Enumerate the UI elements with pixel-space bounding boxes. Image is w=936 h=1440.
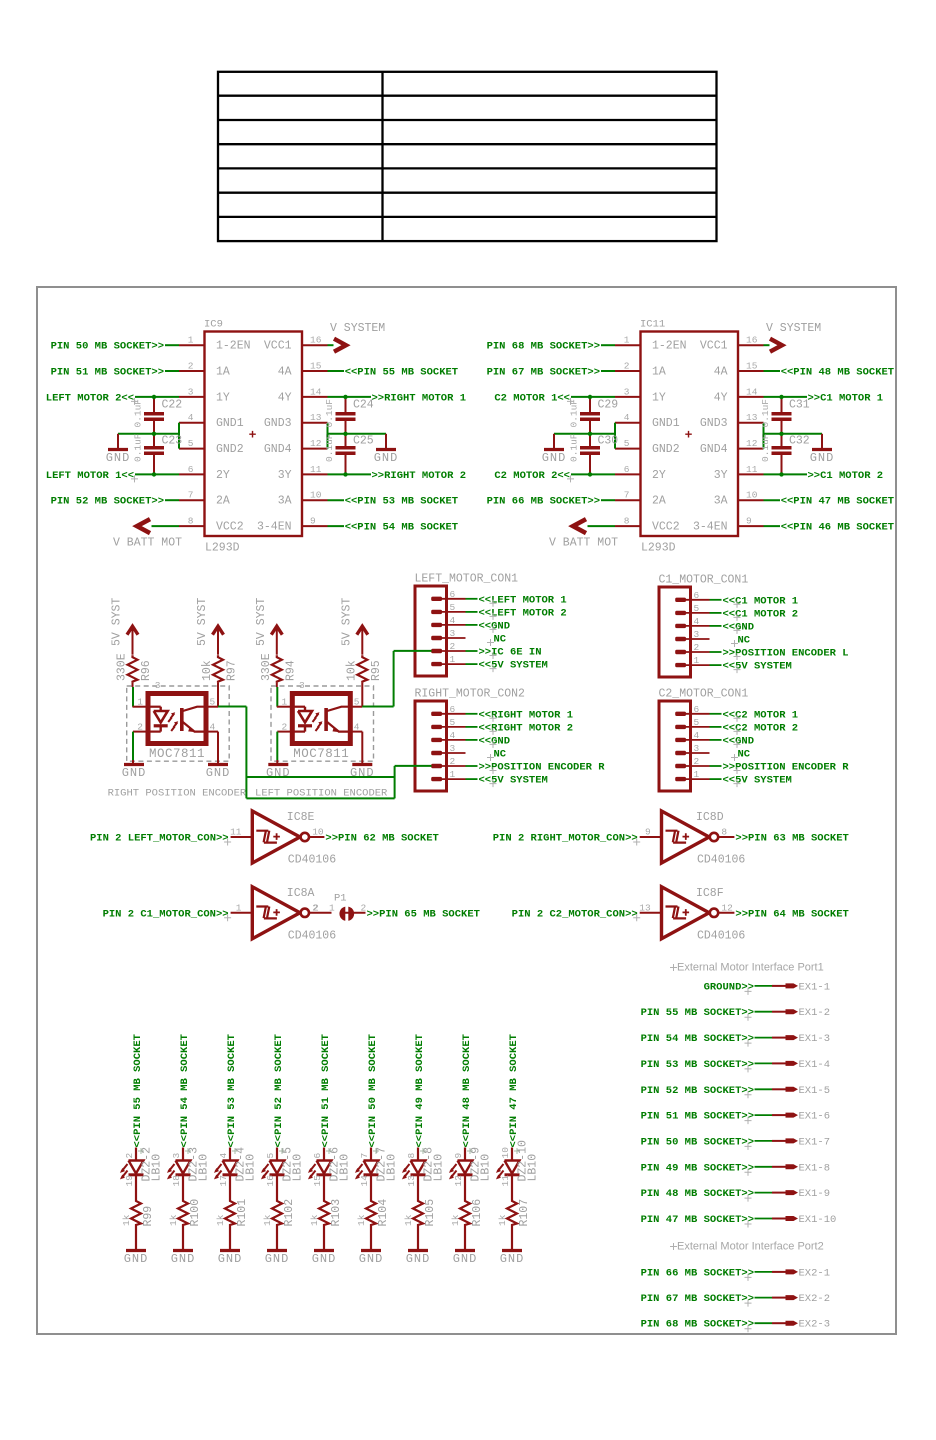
resistor R94 330E xyxy=(260,653,298,687)
svg-text:EX1-10: EX1-10 xyxy=(799,1214,837,1226)
svg-text:+: + xyxy=(685,428,693,443)
svg-text:1: 1 xyxy=(236,902,242,913)
svg-text:LEFT MOTOR 1<<: LEFT MOTOR 1<< xyxy=(46,470,134,482)
svg-text:6: 6 xyxy=(312,1153,323,1159)
svg-text:GND: GND xyxy=(171,1252,196,1266)
svg-text:>>PIN 62 MB SOCKET: >>PIN 62 MB SOCKET xyxy=(325,833,438,845)
svg-text:PIN 66 MB SOCKET>>: PIN 66 MB SOCKET>> xyxy=(641,1267,754,1279)
svg-text:GND2: GND2 xyxy=(652,443,680,456)
svg-text:R100: R100 xyxy=(189,1199,202,1227)
net label PIN 47 MB SOCKET (pin 10) xyxy=(764,496,895,508)
svg-text:VCC2: VCC2 xyxy=(652,521,680,534)
svg-text:4: 4 xyxy=(188,412,194,423)
ground xyxy=(542,450,567,466)
svg-text:11: 11 xyxy=(230,827,242,838)
svg-text:4Y: 4Y xyxy=(278,391,292,404)
svg-text:>>C1 MOTOR 1: >>C1 MOTOR 1 xyxy=(808,392,884,404)
svg-text:<<PIN 49 MB SOCKET: <<PIN 49 MB SOCKET xyxy=(414,1034,426,1147)
svg-text:GND4: GND4 xyxy=(264,443,292,456)
svg-text:17: 17 xyxy=(218,1175,229,1186)
svg-text:NC: NC xyxy=(494,749,507,761)
svg-text:0.1uF: 0.1uF xyxy=(324,433,335,462)
op-amp inverter IC8F CD40106 xyxy=(639,887,745,943)
C2_MOTOR_CON1 pin 6 net &lt;&lt;C2 MOTOR 1 xyxy=(681,709,798,722)
ground xyxy=(206,765,231,781)
svg-text:C24: C24 xyxy=(353,399,374,412)
junction dots right caps xyxy=(779,395,783,477)
wire to LED DZ2-9 xyxy=(464,1148,466,1161)
net label PIN 2 C2_MOTOR_CON xyxy=(512,908,641,921)
svg-text:EX2-1: EX2-1 xyxy=(799,1267,831,1279)
capacitor C29 xyxy=(569,397,619,434)
svg-text:LB10: LB10 xyxy=(151,1154,164,1182)
ground xyxy=(350,765,375,781)
C2_MOTOR_CON1 pin 5 net &lt;&lt;C2 MOTOR 2 xyxy=(681,722,798,735)
C1_MOTOR_CON1 pin 6 net &lt;&lt;C1 MOTOR 1 xyxy=(681,595,798,608)
svg-text:3-4EN: 3-4EN xyxy=(693,521,728,534)
wire resistor R101 to ground xyxy=(229,1226,231,1250)
svg-text:<<5V SYSTEM: <<5V SYSTEM xyxy=(723,661,792,673)
svg-text:8: 8 xyxy=(406,1153,417,1159)
IC9 GND bracket right (GND3/GND4) xyxy=(328,423,387,449)
svg-text:CD40106: CD40106 xyxy=(697,929,745,942)
OK_L pin numbers xyxy=(282,697,360,733)
wire and pad EX1-8 xyxy=(755,1162,831,1174)
svg-text:330E: 330E xyxy=(260,653,273,681)
optocoupler OK_L MOC7811 body xyxy=(292,680,350,761)
svg-text:1-2EN: 1-2EN xyxy=(216,340,251,353)
net label PIN 2 RIGHT_MOTOR_CON xyxy=(493,833,640,846)
svg-text:IC8D: IC8D xyxy=(696,811,724,824)
svg-text:LEFT MOTOR 2<<: LEFT MOTOR 2<< xyxy=(46,392,134,404)
svg-text:5: 5 xyxy=(188,438,194,449)
svg-text:GND: GND xyxy=(312,1252,337,1266)
OK_L collector stub to resistor xyxy=(350,706,362,708)
svg-text:R101: R101 xyxy=(236,1199,249,1227)
svg-text:IC8E: IC8E xyxy=(287,811,315,824)
net label PIN 48 MB SOCKET to EX1-9 xyxy=(641,1188,754,1202)
net label PIN 2 LEFT_MOTOR_CON xyxy=(90,833,231,846)
svg-text:PIN 66 MB SOCKET>>: PIN 66 MB SOCKET>> xyxy=(487,496,600,508)
LED DZ2-9 LB10 xyxy=(451,1147,493,1187)
svg-text:V SYSTEM: V SYSTEM xyxy=(766,322,821,335)
svg-text:PIN 68 MB SOCKET>>: PIN 68 MB SOCKET>> xyxy=(487,341,600,353)
OK_L emitter wire to ground xyxy=(350,732,362,764)
svg-text:>>POSITION ENCODER R: >>POSITION ENCODER R xyxy=(723,762,850,774)
wire and pad EX1-5 xyxy=(755,1085,831,1097)
LEFT_MOTOR_CON1 pin 3 net NC xyxy=(437,634,507,647)
wire IC8E output xyxy=(309,836,324,838)
OK_R light arrows xyxy=(168,712,178,731)
svg-text:R103: R103 xyxy=(330,1199,343,1227)
wire LED to resistor R103 xyxy=(323,1175,325,1199)
svg-text:<<PIN 47 MB SOCKET: <<PIN 47 MB SOCKET xyxy=(781,496,894,508)
IC9 GND bracket left (GND1/GND2) xyxy=(118,423,179,449)
svg-text:1k: 1k xyxy=(309,1214,320,1226)
svg-text:GND: GND xyxy=(406,1252,431,1266)
svg-text:EX1-8: EX1-8 xyxy=(799,1162,831,1174)
wire and pad EX1-6 xyxy=(755,1111,831,1123)
resistor R103 1k xyxy=(309,1199,343,1227)
svg-text:GND: GND xyxy=(106,451,131,465)
V BATT MOT power arrow (pin 8 VCC2) xyxy=(549,519,618,549)
svg-text:GND4: GND4 xyxy=(700,443,728,456)
svg-text:GND: GND xyxy=(374,451,399,465)
5V SYST power arrow xyxy=(127,626,138,655)
svg-text:>>C1 MOTOR 2: >>C1 MOTOR 2 xyxy=(808,470,884,482)
optocoupler OK_L dashed outline xyxy=(271,686,374,761)
wire LED to resistor R101 xyxy=(229,1175,231,1199)
wire resistor R99 to ground xyxy=(135,1226,137,1250)
IC11 GND bracket right (GND3/GND4) xyxy=(764,423,823,449)
svg-text:11: 11 xyxy=(500,1175,511,1187)
svg-text:MOC7811: MOC7811 xyxy=(293,747,349,761)
wire to LED DZ2-8 xyxy=(417,1148,419,1161)
optocoupler OK_R dashed outline xyxy=(127,686,230,761)
svg-text:CD40106: CD40106 xyxy=(288,929,336,942)
net label PIN 55 MB SOCKET (pin 15) xyxy=(328,367,459,379)
svg-text:VCC2: VCC2 xyxy=(216,521,244,534)
net label C2 MOTOR 2 (pin 6, 2Y) xyxy=(494,470,615,483)
svg-text:GND1: GND1 xyxy=(652,417,680,430)
svg-text:GND: GND xyxy=(124,1252,149,1266)
net label C1 MOTOR 2 (pin 11, 3Y) xyxy=(764,470,884,482)
svg-text:0.1uF: 0.1uF xyxy=(569,433,580,462)
capacitor C22 xyxy=(133,397,183,434)
svg-text:>>RIGHT MOTOR 2: >>RIGHT MOTOR 2 xyxy=(372,470,467,482)
OK_R pin numbers xyxy=(137,697,215,733)
svg-text:11: 11 xyxy=(746,464,758,475)
svg-text:R96: R96 xyxy=(140,660,153,681)
svg-text:1: 1 xyxy=(188,335,194,346)
svg-text:2: 2 xyxy=(313,902,319,913)
svg-text:+: + xyxy=(249,428,257,443)
wire and pad EX1-9 xyxy=(755,1188,831,1200)
wire resistor R100 to ground xyxy=(182,1226,184,1250)
svg-text:<<PIN 48 MB SOCKET: <<PIN 48 MB SOCKET xyxy=(461,1034,473,1147)
svg-text:1k: 1k xyxy=(215,1214,226,1226)
svg-text:<<5V SYSTEM: <<5V SYSTEM xyxy=(723,775,792,787)
svg-text:R94: R94 xyxy=(284,660,297,681)
net label LEFT MOTOR 1 (pin 6, 2Y) xyxy=(46,470,179,483)
svg-text:4Y: 4Y xyxy=(714,391,728,404)
svg-text:1k: 1k xyxy=(121,1214,132,1226)
svg-text:R106: R106 xyxy=(471,1199,484,1227)
svg-text:1k: 1k xyxy=(356,1214,367,1226)
svg-text:5V SYST: 5V SYST xyxy=(255,598,268,646)
svg-text:<<PIN 55 MB SOCKET: <<PIN 55 MB SOCKET xyxy=(345,367,458,379)
resistor R100 1k xyxy=(168,1199,202,1227)
svg-text:3: 3 xyxy=(155,680,161,691)
svg-text:2A: 2A xyxy=(652,495,666,508)
wire resistor R106 to ground xyxy=(464,1226,466,1250)
V SYSTEM power arrow (pin 16 VCC1) xyxy=(764,322,822,352)
IC11 pin stubs and numbers xyxy=(615,335,764,527)
svg-text:8: 8 xyxy=(188,516,194,527)
RIGHT_MOTOR_CON2 pin 3 net NC xyxy=(437,749,507,762)
LED DZ2-6 LB10 xyxy=(310,1147,352,1187)
svg-text:EX1-2: EX1-2 xyxy=(799,1007,831,1019)
svg-text:CD40106: CD40106 xyxy=(697,854,745,867)
svg-text:GND: GND xyxy=(359,1252,384,1266)
net label PIN 51 MB SOCKET (pin 2) xyxy=(51,367,179,379)
svg-text:2: 2 xyxy=(188,361,194,372)
svg-text:EX2-3: EX2-3 xyxy=(799,1319,831,1331)
net label PIN 46 MB SOCKET (pin 9) xyxy=(764,522,895,534)
table frame (empty revision table) xyxy=(218,72,717,242)
svg-text:PIN 50 MB SOCKET>>: PIN 50 MB SOCKET>> xyxy=(641,1136,754,1148)
svg-text:PIN 51 MB SOCKET>>: PIN 51 MB SOCKET>> xyxy=(51,367,164,379)
net label PIN 49 MB SOCKET (vertical) xyxy=(414,1034,426,1154)
svg-text:10k: 10k xyxy=(201,660,214,681)
svg-text:R107: R107 xyxy=(518,1199,531,1227)
svg-text:0.1uF: 0.1uF xyxy=(569,399,580,428)
svg-text:GND: GND xyxy=(265,1252,290,1266)
svg-text:LB10: LB10 xyxy=(433,1154,446,1182)
svg-text:PIN 67 MB SOCKET>>: PIN 67 MB SOCKET>> xyxy=(641,1293,754,1305)
svg-text:C25: C25 xyxy=(353,435,374,448)
svg-text:PIN 48 MB SOCKET>>: PIN 48 MB SOCKET>> xyxy=(641,1188,754,1200)
net label PIN 51 MB SOCKET (vertical) xyxy=(320,1034,332,1154)
svg-text:1A: 1A xyxy=(216,366,230,379)
RIGHT_MOTOR_CON2 pin 2 net &gt;&gt;POSITION ENCODER R xyxy=(437,762,605,775)
svg-text:<<5V SYSTEM: <<5V SYSTEM xyxy=(479,660,548,672)
svg-text:IC9: IC9 xyxy=(204,319,223,331)
net label RIGHT MOTOR 2 (pin 11, 3Y) xyxy=(328,470,467,482)
resistor R101 1k xyxy=(215,1199,249,1227)
V BATT MOT power arrow (pin 8 VCC2) xyxy=(113,519,182,549)
svg-text:PIN 67 MB SOCKET>>: PIN 67 MB SOCKET>> xyxy=(487,367,600,379)
svg-text:14: 14 xyxy=(746,386,758,397)
svg-text:1-2EN: 1-2EN xyxy=(652,340,687,353)
svg-text:14: 14 xyxy=(310,386,322,397)
svg-text:>>POSITION ENCODER L: >>POSITION ENCODER L xyxy=(723,648,849,660)
svg-text:0.1uF: 0.1uF xyxy=(324,399,335,428)
svg-text:GND: GND xyxy=(453,1252,478,1266)
svg-text:0.1uF: 0.1uF xyxy=(133,433,144,462)
svg-text:RIGHT POSITION ENCODER: RIGHT POSITION ENCODER xyxy=(108,788,247,800)
svg-text:<<C2 MOTOR 2: <<C2 MOTOR 2 xyxy=(723,722,799,734)
svg-text:9: 9 xyxy=(746,516,752,527)
svg-text:P1: P1 xyxy=(334,893,347,905)
net label PIN 49 MB SOCKET to EX1-8 xyxy=(641,1162,754,1176)
svg-text:C30: C30 xyxy=(598,435,619,448)
svg-text:PIN 51 MB SOCKET>>: PIN 51 MB SOCKET>> xyxy=(641,1111,754,1123)
OK_L internal LED xyxy=(292,707,312,732)
svg-text:5V SYST: 5V SYST xyxy=(111,598,124,646)
wire to LED DZ2-10 xyxy=(511,1148,513,1161)
svg-text:LB10: LB10 xyxy=(292,1154,305,1182)
svg-text:<<GND: <<GND xyxy=(479,735,511,747)
svg-text:10: 10 xyxy=(746,490,758,501)
svg-text:1k: 1k xyxy=(497,1214,508,1226)
capacitor C24 xyxy=(324,397,374,434)
svg-text:15: 15 xyxy=(312,1175,323,1187)
svg-text:EX1-3: EX1-3 xyxy=(799,1033,831,1045)
RIGHT_MOTOR_CON2 pin 5 net &lt;&lt;RIGHT MOTOR 2 xyxy=(437,722,573,735)
wire IC8A output xyxy=(309,912,366,914)
svg-text:<<LEFT MOTOR 1: <<LEFT MOTOR 1 xyxy=(479,594,567,606)
svg-text:LB10: LB10 xyxy=(339,1154,352,1182)
svg-text:330E: 330E xyxy=(116,653,129,681)
wire to LED DZ2-4 xyxy=(229,1148,231,1161)
IC IC9 L293D driver xyxy=(204,319,302,555)
resistor R97 10k xyxy=(201,655,239,707)
svg-text:1k: 1k xyxy=(168,1214,179,1226)
svg-text:3-4EN: 3-4EN xyxy=(257,521,292,534)
svg-text:R105: R105 xyxy=(424,1199,437,1227)
svg-text:PIN 47 MB SOCKET>>: PIN 47 MB SOCKET>> xyxy=(641,1214,754,1226)
net label PIN 50 MB SOCKET to EX1-7 xyxy=(641,1136,754,1150)
net label PIN 68 MB SOCKET to EX2-3 xyxy=(641,1319,754,1333)
svg-text:5: 5 xyxy=(624,438,630,449)
svg-text:R102: R102 xyxy=(283,1199,296,1227)
svg-text:NC: NC xyxy=(738,749,751,761)
net label PIN 53 MB SOCKET (vertical) xyxy=(226,1034,238,1154)
net label PIN 66 MB SOCKET to EX2-1 xyxy=(641,1267,754,1281)
ground xyxy=(406,1251,431,1267)
LED DZ2-3 LB10 xyxy=(169,1147,211,1187)
svg-text:C1_MOTOR_CON1: C1_MOTOR_CON1 xyxy=(659,574,749,587)
OK_R emitter wire to ground xyxy=(206,732,218,764)
net label C1 MOTOR 1 (pin 14, 4Y) xyxy=(764,392,884,404)
resistor R102 1k xyxy=(262,1199,296,1227)
LED DZ2-8 LB10 xyxy=(404,1147,446,1187)
svg-text:<<PIN 55 MB SOCKET: <<PIN 55 MB SOCKET xyxy=(132,1034,144,1147)
svg-text:GND: GND xyxy=(810,451,835,465)
svg-text:1k: 1k xyxy=(262,1214,273,1226)
svg-text:EX1-7: EX1-7 xyxy=(799,1136,831,1148)
svg-text:C31: C31 xyxy=(789,399,810,412)
svg-text:C22: C22 xyxy=(162,399,183,412)
net label C2 MOTOR 1 (pin 3, 1Y) xyxy=(494,392,615,405)
net label PIN 54 MB SOCKET (pin 9) xyxy=(328,522,459,534)
C1_MOTOR_CON1 pin 2 net &gt;&gt;POSITION ENCODER L xyxy=(681,648,849,661)
net label PIN 66 MB SOCKET (pin 7) xyxy=(487,496,615,508)
svg-text:13: 13 xyxy=(310,412,322,423)
wire to LED DZ2-6 xyxy=(323,1148,325,1161)
wire and pad EX2-2 xyxy=(755,1293,831,1305)
svg-text:PIN 55 MB SOCKET>>: PIN 55 MB SOCKET>> xyxy=(641,1007,754,1019)
connector C1_MOTOR_CON1 header xyxy=(659,574,749,678)
net label PIN 54 MB SOCKET (vertical) xyxy=(179,1034,191,1154)
svg-text:0.1uF: 0.1uF xyxy=(760,433,771,462)
wire LED to resistor R106 xyxy=(464,1175,466,1199)
resistor R96 330E xyxy=(116,653,154,687)
svg-text:4A: 4A xyxy=(278,366,292,379)
net label PIN 47 MB SOCKET to EX1-10 xyxy=(641,1214,754,1228)
svg-text:10: 10 xyxy=(312,827,324,838)
svg-text:1: 1 xyxy=(624,335,630,346)
net label PIN 50 MB SOCKET (vertical) xyxy=(367,1034,379,1154)
ground xyxy=(106,450,131,466)
wire LED to resistor R107 xyxy=(511,1175,513,1199)
title External Motor Interface Port2 xyxy=(670,1241,824,1253)
svg-text:PIN 2 LEFT_MOTOR_CON>>: PIN 2 LEFT_MOTOR_CON>> xyxy=(90,833,229,845)
svg-text:2Y: 2Y xyxy=(652,469,666,482)
svg-text:4: 4 xyxy=(624,412,630,423)
svg-text:<<PIN 53 MB SOCKET: <<PIN 53 MB SOCKET xyxy=(345,496,458,508)
OK_R cathode wire to ground xyxy=(133,732,148,764)
C2_MOTOR_CON1 pin 4 net &lt;&lt;GND xyxy=(681,735,754,748)
net label PIN 47 MB SOCKET (vertical) xyxy=(508,1034,520,1154)
svg-text:VCC1: VCC1 xyxy=(700,340,728,353)
svg-text:3: 3 xyxy=(171,1153,182,1159)
ground xyxy=(374,450,399,466)
title External Motor Interface Port1 xyxy=(670,962,824,974)
svg-text:LB10: LB10 xyxy=(386,1154,399,1182)
svg-text:PIN 2 RIGHT_MOTOR_CON>>: PIN 2 RIGHT_MOTOR_CON>> xyxy=(493,833,638,845)
svg-text:<<PIN 46 MB SOCKET: <<PIN 46 MB SOCKET xyxy=(781,522,894,534)
resistor R107 1k xyxy=(497,1199,531,1227)
wire resistor R103 to ground xyxy=(323,1226,325,1250)
svg-text:GND: GND xyxy=(542,451,567,465)
wire IC8D output xyxy=(718,836,734,838)
svg-text:PIN 2 C1_MOTOR_CON>>: PIN 2 C1_MOTOR_CON>> xyxy=(103,908,229,920)
svg-text:GND2: GND2 xyxy=(216,443,244,456)
wire to LED DZ2-2 xyxy=(135,1148,137,1161)
OK_R anode wire from resistor xyxy=(132,687,134,707)
schematic sheet border xyxy=(37,287,896,1334)
ground xyxy=(122,765,147,781)
wire IC8F output xyxy=(718,912,734,914)
svg-text:LB10: LB10 xyxy=(527,1154,540,1182)
svg-text:<<PIN 53 MB SOCKET: <<PIN 53 MB SOCKET xyxy=(226,1034,238,1147)
resistor R106 1k xyxy=(450,1199,484,1227)
capacitor C25 xyxy=(324,433,374,474)
svg-text:2: 2 xyxy=(361,902,367,913)
svg-text:1Y: 1Y xyxy=(652,391,666,404)
resistor R105 1k xyxy=(403,1199,437,1227)
svg-text:>>IC 6E IN: >>IC 6E IN xyxy=(479,647,542,659)
svg-text:L293D: L293D xyxy=(205,542,240,555)
svg-text:14: 14 xyxy=(359,1175,370,1187)
svg-text:>>RIGHT MOTOR 1: >>RIGHT MOTOR 1 xyxy=(372,392,467,404)
svg-text:C2 MOTOR 2<<: C2 MOTOR 2<< xyxy=(494,470,570,482)
svg-text:2: 2 xyxy=(124,1153,135,1159)
RIGHT_MOTOR_CON2 pin 1 net &lt;&lt;5V SYSTEM xyxy=(437,775,548,788)
svg-text:EX1-9: EX1-9 xyxy=(799,1188,831,1200)
svg-text:10: 10 xyxy=(310,490,322,501)
wire LED to resistor R102 xyxy=(276,1175,278,1199)
wire pin1 xyxy=(277,706,293,708)
svg-text:<<PIN 50 MB SOCKET: <<PIN 50 MB SOCKET xyxy=(367,1034,379,1147)
net label GROUND to EX1-1 xyxy=(704,981,754,995)
wire to LED DZ2-3 xyxy=(182,1148,184,1161)
op-amp inverter IC8D CD40106 xyxy=(640,811,746,867)
ground xyxy=(218,1251,243,1267)
svg-text:R95: R95 xyxy=(370,660,383,681)
svg-text:RIGHT_MOTOR_CON2: RIGHT_MOTOR_CON2 xyxy=(415,688,526,701)
svg-text:EX2-2: EX2-2 xyxy=(799,1293,831,1305)
svg-text:19: 19 xyxy=(124,1175,135,1187)
svg-text:7: 7 xyxy=(359,1153,370,1159)
OK_L internal phototransistor xyxy=(326,707,350,732)
ground xyxy=(359,1251,384,1267)
svg-text:EX1-4: EX1-4 xyxy=(799,1059,831,1071)
IC11 GND bracket left (GND1/GND2) xyxy=(554,423,615,449)
svg-text:>>POSITION ENCODER R: >>POSITION ENCODER R xyxy=(479,762,606,774)
svg-text:16: 16 xyxy=(746,335,758,346)
5V SYST power arrow xyxy=(213,626,224,655)
optocoupler OK_R MOC7811 body xyxy=(148,680,206,761)
svg-text:C2_MOTOR_CON1: C2_MOTOR_CON1 xyxy=(659,688,749,701)
svg-text:GND3: GND3 xyxy=(700,417,728,430)
svg-text:2Y: 2Y xyxy=(216,469,230,482)
svg-text:>>PIN 65 MB SOCKET: >>PIN 65 MB SOCKET xyxy=(367,908,480,920)
OK_R internal phototransistor xyxy=(182,707,206,732)
net label PIN 48 MB SOCKET (pin 15) xyxy=(764,367,895,379)
